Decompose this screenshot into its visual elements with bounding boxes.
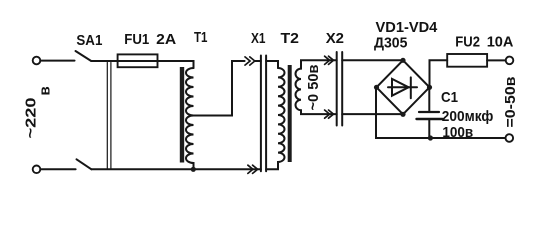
svg-text:X2: X2	[326, 30, 344, 47]
wire: bridge minus rail	[376, 87, 506, 138]
svg-text:100в: 100в	[442, 124, 473, 141]
fuse FU1	[118, 54, 158, 67]
capacitor C1 bottom lead	[428, 119, 430, 138]
switch SA1 bottom blade	[77, 159, 92, 169]
rectifier bridge VD1-VD4 diamond	[377, 60, 430, 114]
svg-text:~0 50в: ~0 50в	[305, 65, 322, 111]
svg-text:2A: 2A	[156, 31, 176, 48]
svg-text:SA1: SA1	[76, 32, 102, 49]
svg-text:T1: T1	[194, 29, 208, 46]
node: bridge left corner	[374, 85, 379, 90]
connector X1 pins (two bars)	[261, 56, 266, 172]
wire: top input to switch	[40, 60, 74, 62]
svg-text:X1: X1	[251, 30, 266, 47]
wire: X1 to T2 primary top	[266, 61, 278, 68]
wire: T1 tap to X1 top	[194, 61, 245, 116]
svg-text:VD1-VD4: VD1-VD4	[376, 19, 438, 36]
transformer T2 core	[288, 65, 292, 162]
node: bridge bottom corner	[400, 112, 405, 117]
svg-text:C1: C1	[441, 89, 458, 106]
node: bridge top corner	[400, 58, 405, 63]
connector X2 pins (two bars)	[337, 52, 343, 126]
connector X2 top arrow	[325, 56, 334, 64]
transformer T1 core	[180, 67, 184, 163]
wire: X2 top to bridge top corner	[342, 59, 403, 61]
svg-text:Д305: Д305	[374, 35, 407, 52]
transformer T2 secondary winding	[296, 60, 337, 114]
switch SA1 top blade	[76, 51, 92, 61]
capacitor C1 plates	[419, 111, 439, 113]
node: bridge right corner	[427, 85, 432, 90]
terminal: output bottom	[506, 134, 514, 142]
svg-text:T2: T2	[281, 30, 300, 47]
svg-text:200мкф: 200мкф	[442, 108, 494, 125]
diode symbol inside bridge	[388, 77, 417, 98]
transformer T1 winding	[186, 68, 193, 169]
connector X1 bottom arrow	[248, 165, 258, 173]
wire: X1 top arrow to pins	[255, 60, 261, 62]
svg-text:~220: ~220	[22, 98, 39, 139]
svg-text:FU1: FU1	[124, 31, 149, 48]
terminal: output top	[506, 57, 514, 65]
capacitor C1 top lead	[428, 87, 430, 112]
node: T1 bottom junction	[191, 167, 196, 172]
terminal: input bottom	[33, 166, 41, 174]
wire: bridge plus riser to FU2	[430, 60, 448, 87]
transformer T2 primary winding	[266, 68, 284, 169]
switch SA1 mechanical link	[107, 63, 111, 169]
wire: bottom rail switch to X1	[91, 168, 261, 170]
wire: X2 bottom to bridge bottom corner	[342, 113, 403, 115]
node: C1 minus junction	[428, 135, 433, 140]
wire: top rail switch to T1 top, turning down into winding	[91, 61, 193, 68]
terminal: input top	[33, 57, 41, 65]
svg-text:в: в	[37, 86, 54, 95]
svg-text:10A: 10A	[487, 34, 514, 51]
svg-text:=0-50в: =0-50в	[502, 77, 519, 128]
connector X1 top arrow	[245, 57, 255, 65]
wire: bottom input to switch	[40, 168, 75, 170]
svg-text:FU2: FU2	[455, 34, 480, 51]
fuse FU2	[447, 54, 487, 67]
wire: FU2 to output terminal	[487, 59, 506, 61]
connector X2 bottom arrow	[325, 110, 334, 118]
